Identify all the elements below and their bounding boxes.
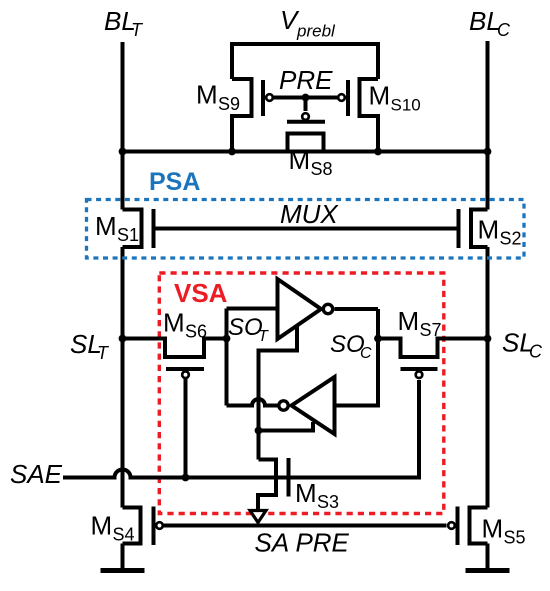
svg-text:C: C	[360, 345, 372, 362]
ground left	[101, 568, 145, 573]
svg-text:M: M	[369, 81, 391, 111]
wire MUX gate	[154, 227, 459, 231]
wire precharge bottom rail	[123, 150, 488, 154]
transistor MS4	[123, 508, 141, 544]
node SAE junction MS6	[182, 474, 190, 482]
svg-text:S8: S8	[311, 159, 333, 179]
wire BLC vertical	[486, 41, 490, 568]
svg-text:PSA: PSA	[149, 168, 200, 196]
svg-text:MUX: MUX	[280, 199, 339, 229]
node rail junctions	[119, 148, 127, 156]
transistor MS3	[258, 460, 276, 512]
wire BLT vertical	[121, 42, 125, 568]
node PRE junction	[302, 94, 310, 102]
transistor MS1	[123, 210, 142, 248]
wire PRE gate	[273, 96, 339, 100]
node SLT junction	[119, 335, 127, 343]
svg-text:M: M	[482, 514, 504, 544]
svg-text:SAE: SAE	[10, 459, 63, 489]
svg-text:M: M	[398, 306, 420, 336]
VSA box	[159, 273, 444, 514]
svg-text:S10: S10	[391, 96, 421, 115]
wire SAE (hops BLT)	[63, 380, 419, 478]
wire PRE to MS8 gate	[304, 98, 308, 112]
svg-text:S7: S7	[420, 320, 442, 340]
transistor MS7	[378, 339, 488, 358]
wire SA PRE rail	[164, 524, 447, 528]
wire inverter tails	[259, 325, 298, 460]
svg-text:S1: S1	[117, 225, 139, 245]
svg-text:S9: S9	[218, 94, 240, 114]
svg-text:C: C	[529, 342, 543, 362]
svg-text:S6: S6	[185, 322, 207, 342]
svg-text:PRE: PRE	[279, 65, 333, 95]
svg-text:M: M	[163, 308, 185, 338]
svg-text:S3: S3	[317, 492, 339, 512]
arrow to SA PRE	[250, 511, 266, 523]
wire inverter1 output to SOC	[335, 309, 379, 406]
wire MS6 gate to SAE	[184, 378, 188, 478]
svg-text:M: M	[478, 215, 500, 245]
svg-text:S4: S4	[113, 525, 135, 545]
svg-text:M: M	[196, 80, 218, 110]
wire inverter2 output to SOT (with hop)	[227, 399, 279, 406]
PSA box	[87, 200, 525, 259]
node SOT junction	[223, 335, 231, 343]
svg-text:prebl: prebl	[296, 22, 336, 41]
wire SOT vertical	[225, 309, 229, 406]
op-amp INV1 (top inverter)	[278, 279, 322, 339]
node SLC junction	[484, 335, 492, 343]
svg-text:M: M	[95, 211, 117, 241]
transistor MS6	[123, 339, 227, 358]
wire inverter1 input	[227, 307, 278, 311]
transistor MS9	[232, 79, 252, 152]
svg-text:C: C	[497, 20, 511, 40]
ground right	[466, 568, 510, 573]
svg-text:T: T	[258, 328, 269, 345]
svg-text:M: M	[295, 478, 317, 508]
svg-text:VSA: VSA	[174, 278, 228, 308]
op-amp INV2 (bottom inverter)	[292, 377, 335, 434]
node tail junction	[255, 427, 263, 435]
svg-text:S5: S5	[504, 528, 526, 548]
transistor MS2	[471, 210, 488, 248]
transistor MS10	[360, 79, 379, 152]
svg-text:S2: S2	[500, 229, 522, 249]
svg-text:M: M	[91, 511, 113, 541]
transistor MS8	[302, 113, 309, 120]
node SOC junction	[374, 335, 382, 343]
svg-text:SA PRE: SA PRE	[255, 528, 350, 558]
wire Vprebl top rail	[232, 44, 378, 79]
transistor MS5	[470, 508, 488, 544]
